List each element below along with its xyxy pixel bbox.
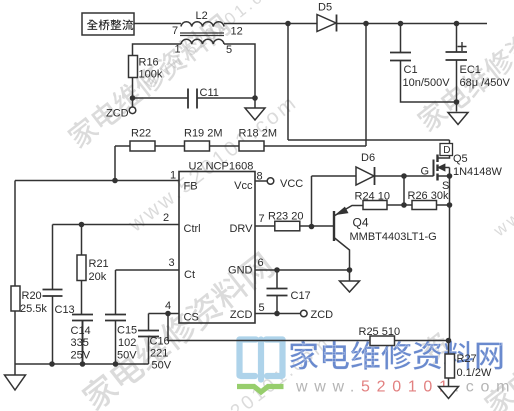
svg-text:102: 102 bbox=[118, 337, 136, 349]
svg-text:C15: C15 bbox=[117, 325, 137, 337]
svg-text:C13: C13 bbox=[55, 304, 75, 316]
svg-text:10n/500V: 10n/500V bbox=[403, 77, 451, 89]
svg-text:12: 12 bbox=[231, 26, 243, 38]
svg-text:FB: FB bbox=[184, 181, 198, 193]
svg-text:D6: D6 bbox=[361, 152, 375, 164]
svg-text:3: 3 bbox=[169, 257, 175, 269]
svg-text:Ct: Ct bbox=[184, 269, 195, 281]
svg-text:R20: R20 bbox=[22, 290, 42, 302]
svg-text:20k: 20k bbox=[89, 271, 107, 283]
svg-text:D: D bbox=[443, 145, 450, 156]
svg-text:R18 2M: R18 2M bbox=[239, 128, 278, 140]
svg-text:MMBT4403LT1-G: MMBT4403LT1-G bbox=[350, 231, 437, 243]
svg-text:0.1/2W: 0.1/2W bbox=[457, 367, 492, 379]
svg-text:221: 221 bbox=[150, 348, 168, 360]
svg-text:6: 6 bbox=[258, 257, 264, 269]
svg-text:1: 1 bbox=[170, 170, 176, 182]
svg-text:S: S bbox=[442, 180, 449, 192]
svg-text:Q4: Q4 bbox=[353, 216, 369, 230]
svg-text:50V: 50V bbox=[152, 360, 172, 372]
svg-text:Q5: Q5 bbox=[453, 153, 468, 165]
svg-text:R19 2M: R19 2M bbox=[184, 128, 223, 140]
svg-text:VCC: VCC bbox=[280, 178, 303, 190]
svg-text:2: 2 bbox=[163, 212, 169, 224]
svg-text:1N4148W: 1N4148W bbox=[453, 166, 503, 178]
svg-text:ZCD: ZCD bbox=[106, 108, 129, 120]
svg-text:ZCD: ZCD bbox=[311, 309, 334, 321]
svg-text:Ctrl: Ctrl bbox=[184, 223, 201, 235]
svg-text:68μ /450V: 68μ /450V bbox=[460, 77, 511, 89]
svg-text:5: 5 bbox=[226, 44, 232, 56]
svg-text:R16: R16 bbox=[139, 57, 159, 69]
svg-text:7: 7 bbox=[172, 25, 178, 37]
svg-text:D5: D5 bbox=[318, 2, 332, 14]
svg-text:U2 NCP1608: U2 NCP1608 bbox=[189, 161, 254, 173]
svg-text:R23 20: R23 20 bbox=[268, 211, 303, 223]
svg-text:G: G bbox=[421, 166, 430, 178]
svg-text:25.5k: 25.5k bbox=[20, 303, 47, 315]
svg-text:C16: C16 bbox=[150, 336, 170, 348]
svg-text:R27: R27 bbox=[457, 353, 477, 365]
svg-text:C1: C1 bbox=[404, 64, 418, 76]
svg-text:100k: 100k bbox=[139, 69, 163, 81]
svg-text:EC1: EC1 bbox=[460, 64, 481, 76]
svg-text:8: 8 bbox=[257, 171, 263, 183]
svg-text:1: 1 bbox=[175, 44, 181, 56]
svg-text:CS: CS bbox=[184, 312, 199, 324]
svg-text:C14: C14 bbox=[71, 325, 91, 337]
svg-text:www.520101.com: www.520101.com bbox=[295, 379, 514, 396]
svg-text:5: 5 bbox=[259, 302, 265, 314]
svg-text:4: 4 bbox=[165, 300, 171, 312]
svg-text:C11: C11 bbox=[200, 87, 219, 99]
svg-text:GND: GND bbox=[228, 265, 253, 277]
svg-text:R21: R21 bbox=[89, 258, 109, 270]
svg-text:7: 7 bbox=[259, 213, 265, 225]
svg-text:R24 10: R24 10 bbox=[355, 191, 390, 203]
svg-text:DRV: DRV bbox=[229, 223, 253, 235]
svg-text:C17: C17 bbox=[291, 290, 311, 302]
svg-text:Vcc: Vcc bbox=[234, 180, 253, 192]
svg-text:L2: L2 bbox=[196, 10, 208, 22]
svg-text:25V: 25V bbox=[71, 350, 91, 362]
svg-text:ZCD: ZCD bbox=[230, 309, 253, 321]
svg-text:50V: 50V bbox=[117, 350, 137, 362]
svg-text:335: 335 bbox=[71, 337, 89, 349]
svg-text:R25 510: R25 510 bbox=[359, 326, 401, 338]
svg-text:R22: R22 bbox=[131, 128, 151, 140]
